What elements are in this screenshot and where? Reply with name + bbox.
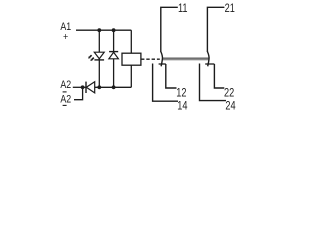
node junction dot diode branch top [112,28,116,32]
wire freewheel diode branch vertical [113,30,115,87]
LED D1 [88,52,104,61]
dashed actuator link from coil [141,58,160,60]
terminal label A2 lower [60,94,71,106]
svg-text:A2: A2 [60,79,71,91]
relay coil K1 [122,53,141,65]
wire bottom rail [95,86,132,88]
wire coil branch vertical top [130,30,132,53]
svg-text:12: 12 [176,88,186,100]
NC contact bar pole 2 [205,63,214,65]
terminal 14 lead [153,64,178,102]
svg-text:+: + [63,31,68,43]
wire coil bottom lead [130,65,132,87]
svg-text:11: 11 [178,3,188,15]
contact blade pole 2 [207,52,209,67]
node junction dot LED branch top [97,28,101,32]
node junction dot LED branch bottom [97,85,101,89]
polarity diode D3 [86,82,95,93]
terminal label A2 upper [60,79,71,92]
NC contact bar pole 1 [159,63,166,65]
svg-text:14: 14 [177,101,187,113]
wire top rail A1 [76,29,131,31]
freewheel diode D2 [109,52,119,59]
svg-text:24: 24 [225,101,235,113]
terminal 22 lead [214,64,224,88]
svg-text:22: 22 [224,88,234,100]
terminal 12 lead [166,64,177,88]
contact blade pole 1 [161,52,163,67]
svg-text:A2: A2 [60,94,71,106]
mechanical link double line [162,58,209,61]
terminal 21 lead [207,7,224,52]
terminal 24 lead [200,64,227,101]
node junction dot A2 join [81,85,85,89]
wire A2 lower L [74,87,83,99]
svg-text:21: 21 [225,3,235,15]
terminal label A1 [60,21,71,43]
terminal 11 lead [161,7,178,52]
node junction dot diode branch bottom [112,85,116,89]
wire A2 upper horizontal [73,86,86,88]
wire LED branch vertical [98,30,100,87]
